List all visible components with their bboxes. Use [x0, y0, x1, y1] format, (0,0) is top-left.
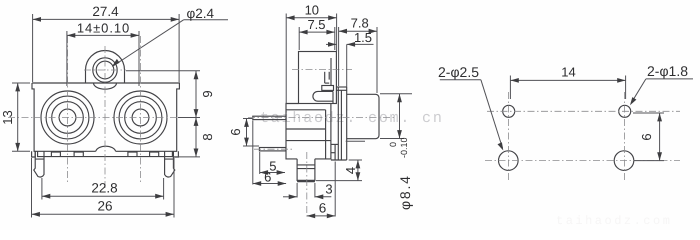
label 2-phi2.5 leader	[438, 64, 503, 151]
svg-text:7.5: 7.5	[307, 17, 325, 32]
centerline center leg	[306, 152, 308, 217]
dim 5	[260, 152, 285, 175]
centerline horizontal boss	[84, 69, 126, 71]
boss circle inner (phi 2.4 hole)	[96, 61, 114, 79]
centerline vertical right jack	[140, 36, 142, 183]
dim 14 right view	[510, 65, 625, 100]
barrel phi 8.4	[347, 94, 379, 138]
dim phi 8.4 tol	[380, 94, 413, 210]
body outline	[32, 83, 179, 151]
svg-text:1.5: 1.5	[354, 30, 372, 45]
dim 4 right	[316, 141, 365, 180]
dim 6 horizontal left	[253, 121, 286, 186]
centerline vertical body center	[104, 46, 106, 190]
svg-text:2-φ2.5: 2-φ2.5	[438, 64, 479, 80]
lower block	[286, 104, 331, 159]
bottom edge arc bump	[96, 146, 116, 151]
svg-text:8: 8	[200, 133, 215, 140]
top dome boss	[86, 51, 125, 84]
svg-text:7.8: 7.8	[351, 16, 369, 31]
left jack circles	[41, 91, 94, 144]
right jack circles	[114, 91, 167, 144]
svg-text:14: 14	[561, 65, 575, 80]
svg-text:9: 9	[200, 90, 215, 97]
svg-text:6: 6	[319, 201, 327, 216]
hole top-left phi 1.8	[503, 105, 515, 117]
bottom strip plate	[38, 151, 173, 156]
svg-text:0: 0	[388, 142, 398, 147]
centerline vertical right holes	[623, 92, 625, 181]
label phi 2.4 leader	[112, 6, 228, 67]
dim 6 vertical left	[228, 119, 259, 147]
svg-text:-0.10: -0.10	[399, 137, 409, 158]
left mounting leg	[34, 151, 44, 177]
dim 8 right	[173, 118, 215, 157]
lower block internal lines	[286, 110, 331, 159]
dim 14 +-0.10	[67, 21, 139, 87]
lower terminal pin	[259, 148, 286, 151]
dim 26	[32, 158, 175, 218]
dim 22.8	[42, 178, 164, 200]
svg-text:6: 6	[228, 128, 243, 135]
dim 27.4	[33, 4, 180, 82]
svg-text:4: 4	[343, 167, 358, 174]
dim 13	[0, 83, 30, 151]
svg-text:26: 26	[97, 199, 112, 214]
centerline jack axis middle view	[248, 117, 395, 119]
centerline vertical left holes	[508, 92, 510, 181]
dim 9 right	[126, 71, 215, 118]
svg-text:22.8: 22.8	[91, 181, 117, 196]
right mounting leg	[165, 151, 175, 177]
hole bottom-left phi 2.5	[499, 151, 519, 171]
label 2-phi1.8 leader	[630, 63, 693, 105]
dim 3	[283, 182, 333, 200]
svg-text:6: 6	[264, 170, 271, 185]
centerline horizontal bottom holes	[485, 160, 680, 162]
top block	[299, 52, 337, 104]
dim 10	[286, 3, 336, 104]
left outer tab	[32, 151, 36, 157]
svg-text:3: 3	[325, 182, 332, 197]
dim 7.8	[339, 16, 377, 94]
top edge arc bump	[94, 83, 117, 89]
svg-text:φ2.4: φ2.4	[187, 6, 215, 21]
svg-text:2-φ1.8: 2-φ1.8	[647, 63, 688, 79]
svg-text:6: 6	[639, 133, 654, 140]
dim 6 bottom	[307, 162, 335, 219]
spacer column	[331, 144, 338, 160]
center leg	[297, 159, 315, 181]
centerline boss axis middle view	[292, 68, 352, 70]
svg-text:14±0.10: 14±0.10	[77, 21, 130, 36]
dim 1.5	[326, 30, 374, 87]
svg-text:10: 10	[305, 3, 319, 18]
centerline vertical left jack	[67, 36, 69, 183]
strip pin tabs	[51, 151, 158, 156]
svg-text:taihaodz.com: taihaodz.com	[556, 214, 672, 228]
centerline horizontal jacks	[8, 117, 199, 119]
hole bottom-right phi 2.5	[614, 151, 634, 171]
upper terminal pin	[253, 116, 286, 119]
contact detail lines in top block	[313, 58, 334, 104]
hole top-right phi 1.8	[619, 105, 631, 117]
svg-text:13: 13	[0, 110, 15, 124]
right outer tab	[173, 151, 178, 157]
boss circle outer	[93, 58, 117, 82]
svg-text:φ8.4: φ8.4	[397, 174, 413, 210]
svg-text:27.4: 27.4	[92, 4, 119, 19]
svg-text:taihaodz. com. cn: taihaodz. com. cn	[260, 110, 444, 127]
dim 7.5	[299, 17, 335, 50]
centerline lower pin	[254, 148, 292, 150]
flange plate	[331, 87, 347, 160]
dim 6 right view	[633, 113, 664, 161]
centerline horizontal top holes	[487, 110, 680, 112]
